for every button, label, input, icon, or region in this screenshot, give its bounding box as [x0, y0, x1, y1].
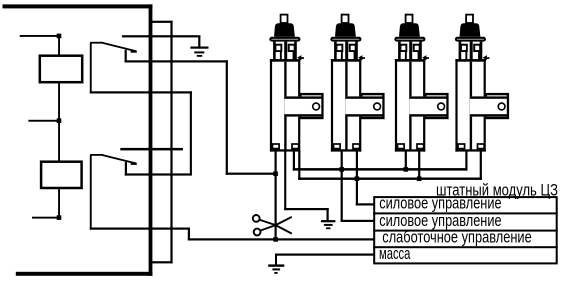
node dot A: [273, 171, 278, 176]
actuator M2 left wire to row2: [341, 152, 375, 223]
wire: [58, 121, 60, 161]
node dot 3: [57, 215, 62, 220]
actuator M1: [270, 15, 323, 152]
ground G1: [190, 47, 208, 57]
node dot bus A / M2: [339, 167, 344, 172]
actuator M2: [331, 15, 384, 152]
actuator M3: [395, 15, 448, 152]
wire loop v171 from box top to box bottom: [151, 21, 173, 264]
wire stub 1: [20, 35, 59, 37]
wire row3 (слаботочное управление): [188, 238, 375, 240]
wire segment to switch S2 contact: [125, 173, 192, 175]
actuator M1 middle wire to ground G2: [284, 152, 329, 221]
relay switch S2 common bottom wire: [90, 155, 190, 241]
relay coil K2: [41, 162, 82, 188]
relay switch S2 armature: [90, 154, 137, 165]
wire v190 down: [190, 91, 192, 175]
relay switch S1 armature: [90, 42, 137, 53]
node dot on row3 wire: [273, 237, 278, 242]
wire: [58, 188, 60, 218]
wire coil feed upper: [58, 36, 60, 55]
actuator M2 right wire to row1: [356, 152, 375, 206]
wire segment to node A: [226, 173, 276, 175]
node dot bus B / M3: [417, 176, 422, 181]
svg-text:силовое управление: силовое управление: [379, 194, 501, 213]
actuator M4 right wire: [480, 152, 482, 180]
actuator M3 left wire: [405, 152, 407, 171]
scissors (cut here): [253, 215, 292, 235]
wire: [58, 83, 60, 120]
node dot 2: [57, 118, 62, 123]
wire v227 down: [226, 60, 228, 175]
relay switch S1 common bottom wire: [90, 43, 192, 94]
ground G3: [268, 254, 284, 274]
module box (штатный блок) outline: [3, 4, 153, 275]
node dot 1: [57, 34, 62, 39]
wire row4 масса from ground G3: [275, 254, 375, 256]
relay switch S1 upper contact wire to ground: [122, 35, 200, 47]
svg-text:масса: масса: [379, 244, 411, 263]
actuator M1 left wire down through scissors: [275, 152, 277, 241]
wire stub 2: [28, 120, 59, 122]
actuator M4: [455, 15, 508, 152]
ground G2: [321, 220, 336, 229]
actuator M4 left wire: [465, 152, 467, 171]
relay coil K1: [40, 56, 82, 82]
bus A: [293, 168, 468, 171]
actuator M3 right wire: [418, 152, 420, 180]
relay switch S2 top contact (free end): [120, 148, 183, 151]
wire stub 3: [32, 217, 59, 219]
actuator M1 right wire A to bus A: [293, 152, 295, 171]
bus B: [298, 178, 482, 180]
node dot bus B / M2: [355, 176, 360, 181]
label boxes frame: [373, 197, 558, 263]
relay switch S2 lower contact wire: [125, 162, 127, 176]
node dot bus A / M3: [404, 167, 409, 172]
relay switch S1 lower contact wire: [125, 50, 228, 63]
actuator M1 right wire B to bus B: [298, 152, 300, 180]
